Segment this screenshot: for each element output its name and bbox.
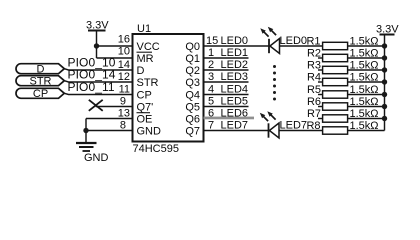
wire Q7 to LED7 (204, 130, 269, 132)
svg-text:1.5kΩ: 1.5kΩ (350, 84, 379, 96)
svg-text:Q7: Q7 (185, 126, 200, 138)
svg-text:GND: GND (137, 126, 162, 138)
svg-text:Q6: Q6 (185, 114, 200, 126)
svg-text:1.5kΩ: 1.5kΩ (350, 120, 379, 132)
svg-text:12: 12 (118, 71, 130, 83)
svg-text:Q3: Q3 (185, 77, 200, 89)
wire Q2 stub (204, 69, 249, 71)
svg-text:11: 11 (119, 84, 130, 96)
svg-text:Q2: Q2 (185, 65, 200, 77)
svg-text:LED5: LED5 (221, 96, 249, 108)
svg-text:LED3: LED3 (221, 71, 249, 83)
svg-text:3.3V: 3.3V (376, 24, 399, 36)
svg-text:R5: R5 (307, 84, 321, 96)
svg-text:OE: OE (137, 114, 153, 126)
svg-text:3: 3 (208, 71, 214, 83)
svg-text:PIO0_11: PIO0_11 (68, 80, 115, 94)
svg-text:Q1: Q1 (185, 53, 200, 65)
svg-text:3.3V: 3.3V (86, 20, 109, 32)
svg-text:LED1: LED1 (221, 47, 249, 59)
svg-text:Q5: Q5 (185, 102, 200, 114)
svg-text:LED0: LED0 (280, 35, 308, 47)
wire pin13 OE (86, 118, 133, 120)
svg-text:1.5kΩ: 1.5kΩ (350, 96, 379, 108)
wire pin10 MR (97, 57, 133, 59)
resistor R3 (318, 66, 385, 73)
junction dots rail (382, 43, 387, 121)
svg-text:74HC595: 74HC595 (133, 143, 179, 155)
LED LED0 (260, 27, 279, 54)
svg-text:D: D (37, 64, 45, 76)
svg-text:D: D (137, 65, 145, 77)
svg-text:8: 8 (120, 120, 126, 132)
svg-text:Q7': Q7' (137, 102, 154, 114)
svg-text:4: 4 (208, 84, 214, 96)
power rail 3.3V right (384, 35, 386, 131)
svg-text:CP: CP (33, 88, 48, 100)
wire Q1 stub (204, 57, 249, 59)
svg-text:9: 9 (120, 96, 126, 108)
wire pin9 Q7' (96, 106, 133, 108)
svg-text:15: 15 (206, 35, 218, 47)
wire to ground (85, 119, 87, 143)
svg-text:R3: R3 (307, 60, 321, 72)
svg-text:R2: R2 (307, 48, 321, 60)
junction dot VCC node (94, 43, 99, 48)
port D (16, 64, 64, 76)
junction dot GND node (83, 128, 88, 133)
no-connect X pin 9 (89, 100, 103, 111)
power symbol 3.3V left (88, 31, 106, 59)
wire net PIO0_10 (64, 69, 132, 70)
svg-text:U1: U1 (137, 23, 151, 35)
wire Q4 stub (204, 94, 249, 96)
wire Q0 to LED0 (204, 45, 270, 47)
svg-text:LED2: LED2 (221, 59, 249, 71)
resistor R1 (280, 42, 385, 49)
wire Q5 stub (204, 106, 249, 108)
svg-text:1: 1 (208, 47, 214, 59)
svg-text:LED4: LED4 (221, 84, 249, 96)
svg-text:R8: R8 (306, 120, 320, 132)
IC U1 74HC595 (133, 34, 204, 142)
svg-text:10: 10 (118, 46, 130, 58)
svg-text:5: 5 (208, 96, 214, 108)
svg-text:2: 2 (208, 59, 214, 71)
svg-text:VCC: VCC (137, 41, 160, 53)
svg-text:7: 7 (208, 120, 214, 132)
svg-text:LED7: LED7 (280, 120, 308, 132)
svg-text:STR: STR (30, 76, 52, 88)
svg-text:1.5kΩ: 1.5kΩ (350, 60, 379, 72)
wire Q6 stub highlighted gray (204, 117, 255, 120)
ellipsis dots (273, 65, 276, 101)
svg-text:LED7: LED7 (221, 120, 249, 132)
svg-text:R1: R1 (306, 36, 320, 48)
svg-text:R7: R7 (307, 108, 321, 120)
svg-text:16: 16 (118, 34, 130, 46)
resistor R5 (318, 91, 385, 98)
svg-text:Q4: Q4 (185, 90, 200, 102)
LED LED7 (260, 111, 279, 138)
svg-text:1.5kΩ: 1.5kΩ (350, 36, 379, 48)
svg-text:1.5kΩ: 1.5kΩ (350, 48, 379, 60)
svg-text:1.5kΩ: 1.5kΩ (350, 108, 379, 120)
resistor R7 (318, 115, 385, 122)
power symbol 3.3V right (380, 34, 395, 36)
resistor R6 (318, 103, 385, 110)
svg-text:1.5kΩ: 1.5kΩ (350, 72, 379, 84)
svg-text:Q0: Q0 (185, 41, 200, 53)
wire pin8 GND (86, 130, 133, 132)
wire pin16 VCC (97, 45, 133, 47)
svg-text:CP: CP (137, 90, 152, 102)
resistor R2 (318, 54, 385, 61)
svg-text:STR: STR (137, 77, 159, 89)
svg-text:GND: GND (84, 152, 109, 164)
svg-text:14: 14 (118, 59, 130, 71)
wire net PIO0_11 (64, 93, 132, 94)
port STR (16, 76, 64, 88)
svg-text:R6: R6 (307, 96, 321, 108)
resistor R8 (279, 127, 385, 134)
port CP (16, 88, 64, 100)
wire net PIO0_14 (64, 81, 132, 82)
resistor R4 (318, 78, 385, 85)
wire Q3 stub (204, 81, 249, 83)
svg-text:MR: MR (137, 53, 154, 65)
ground symbol (76, 143, 97, 151)
svg-text:LED0: LED0 (221, 35, 249, 47)
svg-text:13: 13 (118, 108, 130, 120)
svg-text:R4: R4 (307, 72, 321, 84)
